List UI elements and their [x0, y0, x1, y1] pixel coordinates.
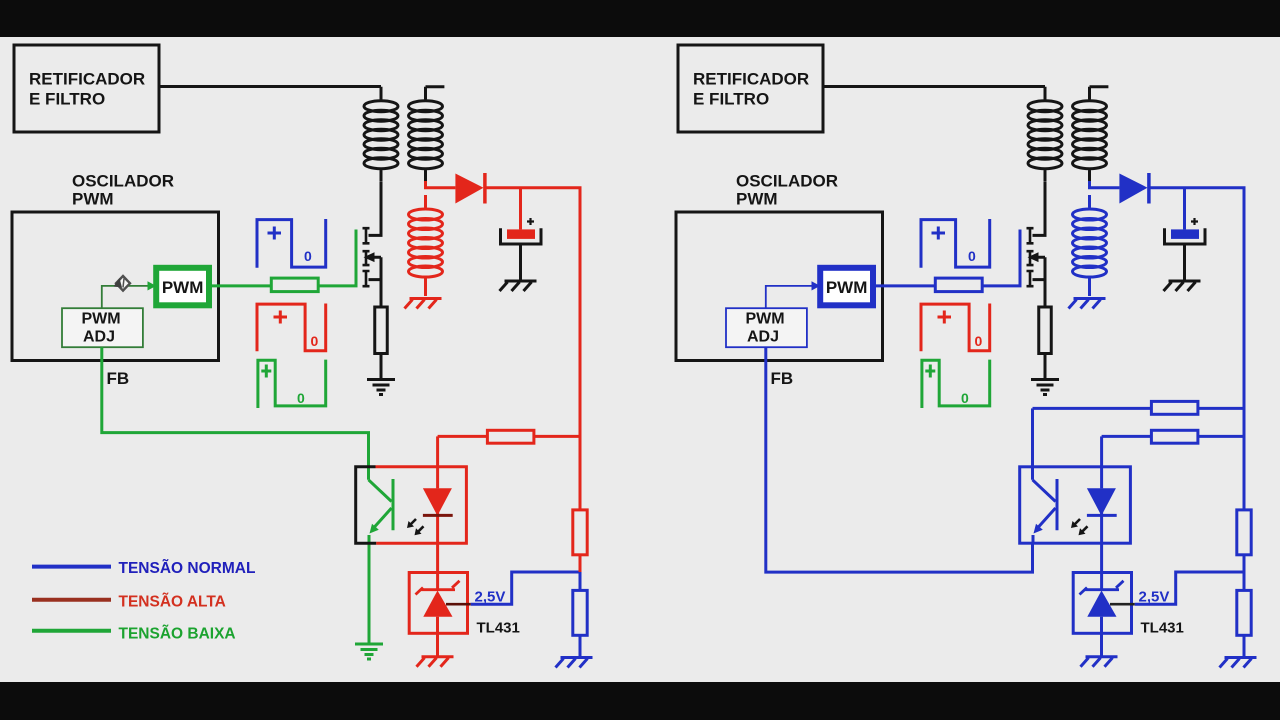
svg-text:0: 0: [297, 390, 305, 406]
svg-text:PWM: PWM: [826, 278, 868, 297]
svg-text:2,5V: 2,5V: [1139, 589, 1170, 606]
svg-text:PWM: PWM: [162, 278, 204, 297]
svg-text:0: 0: [975, 333, 983, 349]
svg-text:0: 0: [311, 333, 319, 349]
svg-text:TL431: TL431: [1141, 620, 1184, 637]
svg-text:0: 0: [961, 390, 969, 406]
svg-text:0: 0: [968, 248, 976, 264]
svg-text:FB: FB: [771, 369, 794, 388]
svg-text:TENSÃO ALTA: TENSÃO ALTA: [119, 593, 226, 611]
svg-text:0: 0: [304, 248, 312, 264]
svg-text:TENSÃO BAIXA: TENSÃO BAIXA: [119, 625, 236, 643]
svg-text:TENSÃO NORMAL: TENSÃO NORMAL: [119, 559, 256, 577]
svg-text:PWM: PWM: [81, 311, 120, 328]
svg-text:ADJ: ADJ: [747, 329, 779, 346]
svg-text:RETIFICADOR: RETIFICADOR: [29, 70, 145, 89]
svg-text:E FILTRO: E FILTRO: [693, 90, 769, 109]
svg-text:TL431: TL431: [477, 620, 520, 637]
svg-text:PWM: PWM: [745, 311, 784, 328]
svg-text:PWM: PWM: [736, 190, 778, 209]
svg-text:RETIFICADOR: RETIFICADOR: [693, 70, 809, 89]
svg-text:E FILTRO: E FILTRO: [29, 90, 105, 109]
svg-text:OSCILADOR: OSCILADOR: [736, 172, 838, 191]
svg-text:FB: FB: [107, 369, 130, 388]
svg-text:PWM: PWM: [72, 190, 114, 209]
svg-text:2,5V: 2,5V: [475, 589, 506, 606]
svg-text:OSCILADOR: OSCILADOR: [72, 172, 174, 191]
svg-text:ADJ: ADJ: [83, 329, 115, 346]
